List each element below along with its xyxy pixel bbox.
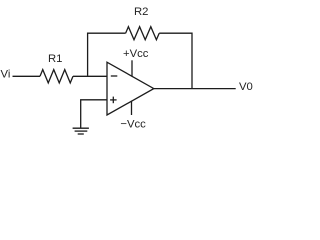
wire output xyxy=(154,88,236,90)
op-amp U1 xyxy=(107,62,154,115)
wire feedback left vertical and top to R2 xyxy=(88,33,126,76)
svg-text:Vi: Vi xyxy=(1,68,11,80)
resistor R1 xyxy=(40,53,73,83)
wire R2 to output node xyxy=(159,33,192,88)
-Vcc supply stub xyxy=(120,101,146,131)
wire R1 to inverting input xyxy=(73,75,107,77)
wire non-inverting input to ground xyxy=(81,100,107,128)
ground xyxy=(73,128,89,134)
svg-text:V0: V0 xyxy=(239,81,253,93)
svg-text:−Vcc: −Vcc xyxy=(120,119,146,131)
wire Vi to R1 xyxy=(13,75,41,77)
resistor R2 xyxy=(126,6,160,40)
svg-text:R2: R2 xyxy=(134,6,148,18)
svg-text:+Vcc: +Vcc xyxy=(123,48,149,60)
+Vcc supply stub xyxy=(123,48,149,76)
svg-text:R1: R1 xyxy=(48,53,62,65)
